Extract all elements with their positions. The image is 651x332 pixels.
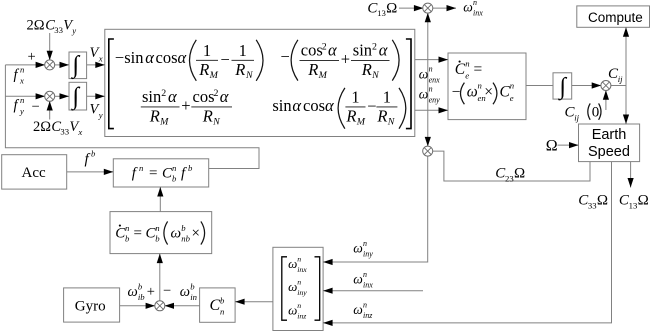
svg-text:f: f <box>14 98 20 114</box>
svg-text:y: y <box>71 26 76 36</box>
svg-text:y: y <box>19 106 24 116</box>
svg-text:−: − <box>281 47 290 66</box>
svg-text:2Ω: 2Ω <box>27 18 45 34</box>
svg-text:n: n <box>510 81 514 91</box>
svg-text:ib: ib <box>138 292 145 302</box>
svg-text:0: 0 <box>592 105 600 121</box>
svg-text:b: b <box>155 234 160 244</box>
svg-text:n: n <box>429 85 433 94</box>
svg-text:ω: ω <box>467 84 478 101</box>
svg-text:ω: ω <box>288 256 297 271</box>
svg-text:α: α <box>328 41 337 60</box>
svg-text:n: n <box>220 307 224 317</box>
svg-text:2: 2 <box>372 41 377 52</box>
svg-text:α: α <box>178 48 187 67</box>
svg-text:+: + <box>341 49 350 68</box>
svg-text:n: n <box>172 163 176 173</box>
svg-text:n: n <box>429 65 433 74</box>
svg-text:b: b <box>220 296 225 306</box>
svg-text:+: + <box>181 96 190 115</box>
svg-text:α: α <box>379 41 388 60</box>
svg-text:cos: cos <box>193 87 215 106</box>
svg-text:n: n <box>139 163 143 173</box>
svg-text:ω: ω <box>419 67 429 82</box>
svg-text:=: = <box>149 166 157 182</box>
svg-text:in: in <box>190 292 197 302</box>
svg-text:R: R <box>361 60 372 79</box>
svg-text:R: R <box>307 60 318 79</box>
svg-text:f: f <box>85 152 91 168</box>
svg-text:ij: ij <box>574 113 579 123</box>
svg-text:C: C <box>455 61 466 78</box>
svg-text:inx: inx <box>473 9 483 18</box>
svg-text:+: + <box>147 284 155 300</box>
svg-text:M: M <box>209 70 219 81</box>
svg-text:2Ω: 2Ω <box>33 119 51 135</box>
svg-text:x: x <box>77 127 82 137</box>
svg-text:ω: ω <box>353 241 363 256</box>
svg-text:Speed: Speed <box>588 144 630 160</box>
svg-text:=: = <box>474 61 483 78</box>
svg-text:n: n <box>297 254 301 263</box>
svg-text:M: M <box>318 70 328 81</box>
svg-text:nb: nb <box>181 234 190 244</box>
svg-text:R: R <box>234 60 245 79</box>
svg-text:ij: ij <box>618 74 623 84</box>
svg-text:R: R <box>376 106 387 125</box>
svg-text:α: α <box>292 96 301 115</box>
svg-text:inx: inx <box>297 265 307 274</box>
svg-text:R: R <box>198 60 209 79</box>
svg-text:×: × <box>484 84 493 101</box>
svg-text:n: n <box>473 0 477 7</box>
svg-text:ω: ω <box>180 284 190 300</box>
svg-text:b: b <box>91 149 96 159</box>
svg-text:n: n <box>297 278 301 287</box>
svg-text:n: n <box>297 301 301 310</box>
svg-text:b: b <box>181 223 186 233</box>
svg-text:b: b <box>188 163 193 173</box>
svg-text:−: − <box>367 96 376 115</box>
svg-text:α: α <box>325 96 334 115</box>
svg-text:iny: iny <box>363 250 373 259</box>
svg-text:α: α <box>145 48 154 67</box>
svg-text:Compute: Compute <box>588 10 643 25</box>
svg-text:b: b <box>190 282 195 292</box>
svg-text:2: 2 <box>322 41 327 52</box>
svg-text:inz: inz <box>297 311 306 320</box>
svg-text:33: 33 <box>54 25 63 35</box>
svg-text:enx: enx <box>429 76 441 85</box>
svg-text:ω: ω <box>419 86 429 101</box>
svg-text:n: n <box>155 223 159 233</box>
svg-text:n: n <box>363 270 367 279</box>
svg-text:33: 33 <box>60 127 69 137</box>
svg-text:ω: ω <box>288 279 297 294</box>
svg-text:sin: sin <box>272 96 291 115</box>
svg-text:ω: ω <box>463 0 473 15</box>
svg-text:sin: sin <box>353 41 372 60</box>
svg-text:Ω: Ω <box>546 138 558 155</box>
svg-text:1: 1 <box>351 88 359 107</box>
svg-text:α: α <box>220 87 229 106</box>
svg-text:2: 2 <box>214 88 219 99</box>
svg-text:x: x <box>98 54 103 64</box>
svg-text:2: 2 <box>161 88 166 99</box>
svg-text:cos: cos <box>303 96 325 115</box>
svg-text:13: 13 <box>629 201 638 211</box>
svg-text:cos: cos <box>301 41 323 60</box>
svg-text:−: − <box>32 99 40 115</box>
svg-text:ω: ω <box>353 302 363 317</box>
svg-text:Ω: Ω <box>514 166 525 182</box>
svg-text:e: e <box>510 93 514 103</box>
svg-text:1: 1 <box>383 88 391 107</box>
svg-text:y: y <box>98 110 103 120</box>
svg-text:ω: ω <box>288 302 297 317</box>
svg-text:b: b <box>125 234 130 244</box>
svg-text:1: 1 <box>239 41 247 60</box>
svg-text:inx: inx <box>363 281 373 290</box>
svg-text:x: x <box>19 76 24 86</box>
svg-text:n: n <box>478 81 482 91</box>
svg-text:C: C <box>210 297 221 314</box>
svg-text:n: n <box>363 239 367 248</box>
svg-text:α: α <box>168 87 177 106</box>
svg-text:+: + <box>28 49 36 65</box>
svg-text:13: 13 <box>377 8 386 18</box>
svg-text:ω: ω <box>171 226 182 242</box>
svg-text:Acc: Acc <box>22 165 46 181</box>
svg-text:×: × <box>192 226 200 242</box>
svg-text:23: 23 <box>505 174 514 184</box>
svg-text:∫: ∫ <box>558 74 568 101</box>
svg-text:b: b <box>138 282 143 292</box>
svg-text:sin: sin <box>142 87 161 106</box>
svg-text:R: R <box>345 106 356 125</box>
svg-text:Ω: Ω <box>597 193 608 209</box>
svg-text:ω: ω <box>128 284 138 300</box>
svg-text:n: n <box>363 301 367 310</box>
svg-text:R: R <box>149 106 160 125</box>
svg-text:e: e <box>465 71 469 81</box>
svg-text:ω: ω <box>353 272 363 287</box>
svg-text:Earth: Earth <box>592 127 627 143</box>
svg-text:R: R <box>202 106 213 125</box>
svg-text:M: M <box>356 117 366 128</box>
svg-text:iny: iny <box>297 288 307 297</box>
svg-text:−: − <box>221 50 230 69</box>
svg-text:∫: ∫ <box>70 83 80 111</box>
svg-text:n: n <box>20 95 24 105</box>
svg-text:eny: eny <box>429 96 441 105</box>
svg-text:−: − <box>452 84 461 101</box>
svg-text:n: n <box>20 65 24 75</box>
svg-text:M: M <box>159 117 169 128</box>
svg-text:Ω: Ω <box>638 193 649 209</box>
svg-text:n: n <box>125 223 129 233</box>
svg-text:33: 33 <box>588 201 597 211</box>
svg-text:∫: ∫ <box>70 51 80 79</box>
svg-text:Gyro: Gyro <box>75 298 106 314</box>
svg-text:cos: cos <box>156 48 178 67</box>
svg-text:b: b <box>172 174 177 184</box>
svg-text:−: − <box>163 283 171 299</box>
svg-text:1: 1 <box>203 41 211 60</box>
svg-text:=: = <box>134 226 142 242</box>
svg-text:Ω: Ω <box>386 0 397 16</box>
svg-text:f: f <box>14 67 20 83</box>
svg-text:−sin: −sin <box>115 48 144 67</box>
svg-text:n: n <box>465 59 469 69</box>
svg-text:inz: inz <box>363 311 373 320</box>
